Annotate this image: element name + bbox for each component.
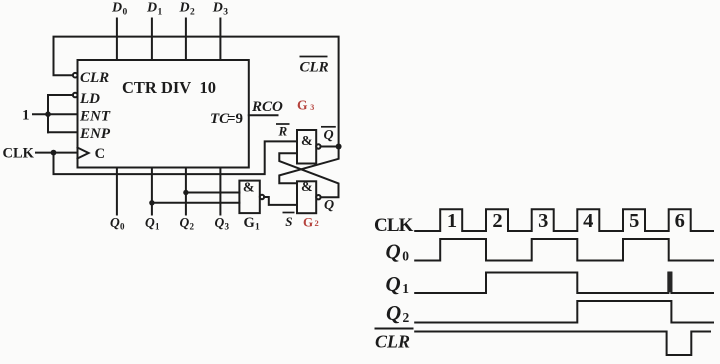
svg-text:CLR: CLR [300,59,329,75]
svg-text:Q: Q [215,215,225,230]
svg-text:5: 5 [629,210,639,232]
svg-text:LD: LD [79,91,100,107]
svg-text:&: & [301,134,313,149]
svg-text:1: 1 [22,108,30,124]
svg-text:1: 1 [402,281,409,296]
svg-text:CLK: CLK [3,146,35,162]
svg-text:2: 2 [190,8,195,18]
svg-text:G: G [297,97,308,112]
svg-text:3: 3 [538,210,548,232]
svg-text:Q: Q [180,215,190,230]
svg-text:1: 1 [158,8,163,18]
svg-text:Q: Q [386,301,401,325]
svg-text:G: G [244,215,255,231]
svg-text:D: D [212,1,223,16]
svg-text:D: D [111,1,122,16]
svg-text:&: & [301,180,313,195]
svg-text:Q: Q [386,272,401,296]
svg-text:3: 3 [225,222,230,232]
svg-text:0: 0 [402,249,409,264]
svg-text:=9: =9 [227,111,243,127]
svg-text:RCO: RCO [251,99,283,115]
svg-text:1: 1 [447,210,457,232]
svg-text:G: G [303,214,313,229]
svg-text:D: D [179,1,190,16]
svg-text:0: 0 [120,222,125,232]
svg-text:1: 1 [155,222,160,232]
svg-text:Q: Q [110,215,120,230]
svg-text:Q: Q [324,198,334,213]
svg-text:ENP: ENP [79,126,111,142]
svg-text:2: 2 [492,210,502,232]
svg-text:Q: Q [145,215,155,230]
svg-text:2: 2 [403,310,410,325]
svg-text:Q: Q [324,128,334,143]
svg-text:ENT: ENT [79,109,111,125]
svg-text:CLR: CLR [80,70,109,86]
svg-text:3: 3 [310,103,314,112]
svg-text:S: S [285,214,292,229]
svg-text:CLR: CLR [375,331,410,351]
svg-text:C: C [95,146,105,162]
svg-text:2: 2 [315,218,319,228]
svg-text:D: D [146,1,157,16]
svg-text:6: 6 [675,210,685,232]
svg-text:R: R [278,124,288,139]
svg-text:2: 2 [190,222,195,232]
svg-text:CTR DIV 10: CTR DIV 10 [122,78,216,97]
svg-text:CLK: CLK [374,215,414,236]
svg-text:0: 0 [123,8,128,18]
svg-text:Q: Q [386,240,401,264]
svg-text:4: 4 [583,210,593,232]
svg-text:1: 1 [255,223,260,233]
svg-text:&: & [243,180,255,195]
svg-text:3: 3 [223,8,228,18]
